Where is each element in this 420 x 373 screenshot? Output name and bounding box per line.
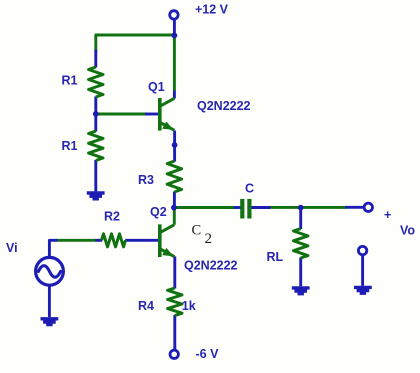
svg-text:Vo: Vo	[400, 224, 415, 238]
svg-text:R1: R1	[62, 139, 78, 153]
svg-text:C: C	[245, 182, 254, 196]
svg-text:Q2: Q2	[150, 205, 167, 219]
svg-text:1k: 1k	[182, 299, 196, 313]
svg-text:R2: R2	[104, 210, 120, 224]
svg-text:R4: R4	[138, 299, 154, 313]
svg-text:R3: R3	[138, 173, 154, 187]
svg-text:R1: R1	[62, 74, 78, 88]
svg-text:+12 V: +12 V	[195, 3, 229, 17]
svg-text:RL: RL	[267, 250, 284, 264]
svg-text:-6 V: -6 V	[196, 347, 220, 361]
svg-text:C: C	[192, 222, 202, 238]
svg-text:2: 2	[205, 231, 213, 247]
svg-text:Q2N2222: Q2N2222	[184, 259, 238, 273]
svg-text:Vi: Vi	[6, 241, 18, 255]
svg-text:Q2N2222: Q2N2222	[197, 99, 251, 113]
svg-text:Q1: Q1	[148, 80, 165, 94]
svg-text:+: +	[384, 208, 391, 222]
